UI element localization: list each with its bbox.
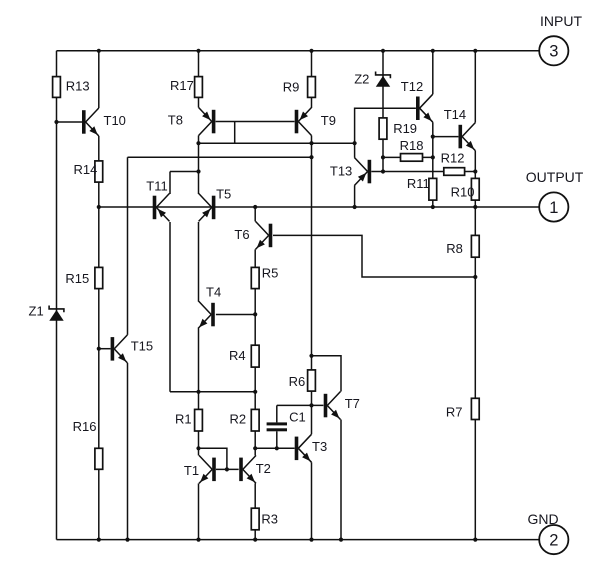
- resistor R10: [471, 178, 479, 200]
- wire T9 collector center column: [311, 136, 313, 435]
- node tail / R4-R2: [253, 390, 257, 394]
- transistor T8: [199, 108, 216, 136]
- node R2 / T2 collector: [253, 446, 257, 450]
- resistor R6: [308, 370, 316, 391]
- wire T13 emitter drop: [354, 186, 356, 208]
- svg-text:R17: R17: [170, 78, 194, 93]
- node T1 T2 base jog: [225, 467, 229, 471]
- wire T8 collector drop: [198, 136, 200, 144]
- wire Z2 R19 branch: [382, 51, 384, 172]
- node output rail / T6 collector: [253, 205, 257, 209]
- resistor R4: [251, 345, 259, 367]
- wire R18 row: [383, 156, 433, 158]
- resistor R3: [251, 508, 259, 530]
- label R17: [170, 78, 194, 93]
- svg-text:R15: R15: [65, 271, 89, 286]
- node T15 base / R15-R16: [97, 347, 101, 351]
- node C1 / T3 base: [275, 446, 279, 450]
- node T10 base / R13: [54, 120, 58, 124]
- svg-text:R2: R2: [230, 412, 247, 427]
- node divider tap R8-R7: [473, 275, 477, 279]
- node center column / T7 collector wire: [309, 354, 313, 358]
- wire T8 T9 base rail: [216, 121, 295, 123]
- wire T5 emitter to T4 collector: [198, 222, 200, 301]
- label Z1: [29, 304, 44, 319]
- wire T6 base to divider tap: [273, 235, 475, 277]
- wire T14 collector: [474, 51, 476, 123]
- transistor T9: [295, 108, 312, 136]
- svg-text:R4: R4: [229, 348, 246, 363]
- wire node A to node B: [198, 143, 200, 171]
- svg-text:R19: R19: [393, 121, 417, 136]
- node R19 / R18 left: [381, 155, 385, 159]
- node T4 base / R5-R4: [253, 312, 257, 316]
- wire T10 collector to input rail: [98, 51, 100, 108]
- label R19: [393, 121, 417, 136]
- node T14 base: [431, 135, 435, 139]
- svg-text:R9: R9: [283, 80, 300, 95]
- node ground / T3 emitter: [309, 538, 313, 542]
- wire T1 T2 base link: [216, 468, 239, 470]
- svg-text:OUTPUT: OUTPUT: [526, 169, 584, 185]
- resistor R7: [471, 398, 479, 419]
- wire T3 emitter to ground: [311, 462, 313, 539]
- resistor R11: [429, 178, 437, 200]
- wire left rail with Z1: [56, 51, 58, 540]
- label R7: [446, 405, 463, 420]
- wire T15 collector riser: [127, 157, 129, 335]
- label T11: [146, 179, 167, 194]
- wire node T15-collector horizontal: [128, 156, 312, 158]
- svg-text:Z2: Z2: [354, 72, 369, 87]
- svg-text:R1: R1: [175, 412, 192, 427]
- svg-text:T10: T10: [104, 113, 126, 128]
- node ground / T1 emitter: [196, 538, 200, 542]
- node ground / T15 emitter: [125, 538, 129, 542]
- svg-text:C1: C1: [289, 410, 306, 425]
- node input rail / T14 collector: [473, 49, 477, 53]
- svg-text:R18: R18: [400, 138, 424, 153]
- label T13: [330, 164, 352, 179]
- resistor R19: [379, 118, 387, 139]
- wire R8 R7 divider column: [474, 207, 476, 540]
- svg-text:R7: R7: [446, 405, 463, 420]
- label T7: [345, 396, 360, 411]
- resistor R18: [401, 154, 423, 162]
- node R6 / T7 base / T3 collector: [309, 403, 313, 407]
- transistor T7: [324, 392, 341, 420]
- resistor R2: [251, 409, 259, 431]
- node center column / 157-wire: [309, 155, 313, 159]
- node input rail / T12 collector: [431, 49, 435, 53]
- label Z2: [354, 72, 369, 87]
- wire T7 collector link: [312, 356, 342, 392]
- transistor T11: [153, 193, 170, 221]
- node T13 collector / T12 base: [353, 141, 357, 145]
- label T4: [206, 285, 221, 300]
- label R6: [289, 374, 306, 389]
- wire T4 base: [216, 314, 255, 316]
- label T12: [401, 79, 423, 94]
- label R5: [262, 266, 279, 281]
- label T14: [444, 107, 466, 122]
- wire T13 collector riser: [354, 143, 356, 157]
- node A T8 collector: [196, 141, 200, 145]
- zener Z2: [376, 72, 391, 87]
- transistor T5: [199, 193, 216, 221]
- transistor T10: [82, 108, 99, 136]
- wire T14 emitter R10: [474, 151, 476, 207]
- node ground / T7 emitter: [339, 538, 343, 542]
- svg-text:R16: R16: [73, 419, 97, 434]
- svg-text:T15: T15: [131, 339, 153, 354]
- wire T8 base-collector tie: [234, 122, 236, 144]
- wire T14 base: [433, 136, 459, 138]
- svg-text:R12: R12: [441, 151, 465, 166]
- svg-text:1: 1: [549, 199, 558, 217]
- label T8: [168, 112, 183, 127]
- wire T2 emitter R3 to ground: [254, 483, 256, 539]
- wire T1 collector stub: [198, 448, 200, 455]
- node ground / R3: [253, 538, 257, 542]
- wire input top rail: [57, 50, 540, 52]
- wire T7 base C1 link: [277, 404, 324, 406]
- node ground / R16: [97, 538, 101, 542]
- label T1: [184, 463, 199, 478]
- label T2: [256, 461, 271, 476]
- resistor R14: [95, 161, 103, 182]
- node input rail / R9: [309, 49, 313, 53]
- wire R9 from input rail: [311, 51, 313, 108]
- node input rail / R17: [196, 49, 200, 53]
- node input rail / R13-T10: [97, 49, 101, 53]
- svg-text:T12: T12: [401, 79, 423, 94]
- label R1: [175, 412, 192, 427]
- node R1 / T1 collector: [196, 446, 200, 450]
- transistor T2: [239, 455, 256, 483]
- zener Z1: [49, 306, 64, 321]
- label R4: [229, 348, 246, 363]
- label R8: [446, 241, 463, 256]
- svg-text:T8: T8: [168, 112, 183, 127]
- label T9: [321, 113, 336, 128]
- svg-text:R10: R10: [451, 185, 475, 200]
- node output rail / T13 emitter: [353, 205, 357, 209]
- node tail / T4 emitter R1: [196, 390, 200, 394]
- svg-text:T2: T2: [256, 461, 271, 476]
- terminal 2 GND: [528, 511, 569, 554]
- resistor R12: [444, 168, 465, 176]
- svg-text:T3: T3: [312, 439, 327, 454]
- wire T1 emitter to ground: [198, 483, 200, 539]
- label T5: [216, 187, 231, 202]
- label R15: [65, 271, 89, 286]
- node output rail / R10-R8: [473, 205, 477, 209]
- wire T6 emitter R5 R4 R2 chain: [254, 249, 256, 455]
- resistor R8: [471, 235, 479, 257]
- svg-text:T7: T7: [345, 396, 360, 411]
- label R12: [441, 151, 465, 166]
- resistor R9: [308, 77, 316, 98]
- svg-text:R3: R3: [261, 512, 278, 527]
- wire C1 top lead: [276, 405, 278, 422]
- transistor T15: [111, 335, 128, 363]
- svg-text:T6: T6: [234, 227, 249, 242]
- wire T1 base jog: [199, 448, 227, 469]
- transistor T13: [354, 158, 371, 186]
- transistor T14: [459, 123, 476, 151]
- resistor R1: [195, 409, 203, 431]
- node T11 T5 collectors: [196, 169, 200, 173]
- wire T7 emitter to ground: [340, 420, 342, 540]
- resistor R16: [95, 448, 103, 469]
- wire T10 base: [57, 121, 83, 123]
- node output rail / R11: [431, 205, 435, 209]
- wire T15 emitter to ground: [127, 363, 129, 540]
- transistor T4: [198, 301, 215, 329]
- node ground / R7: [473, 538, 477, 542]
- wire T6 collector stub: [254, 207, 256, 221]
- label R13: [66, 79, 90, 94]
- label R18: [400, 138, 424, 153]
- wire T11 collector link: [170, 172, 199, 195]
- wire T12 emitter R11 chain: [432, 122, 434, 207]
- wire T12 collector: [432, 51, 434, 94]
- node T12 emitter / R18 right: [431, 155, 435, 159]
- terminal 3 INPUT: [539, 13, 582, 66]
- resistor R17: [195, 77, 203, 98]
- svg-text:R13: R13: [66, 79, 90, 94]
- wire T2-collector T3-base link: [255, 447, 294, 449]
- terminal 1 OUTPUT: [526, 169, 584, 222]
- svg-text:INPUT: INPUT: [540, 13, 582, 29]
- capacitor C1: [267, 422, 287, 431]
- node T9 collector: [309, 141, 313, 145]
- svg-text:3: 3: [549, 43, 558, 61]
- wire T10 emitter through R14 R15 R16 to ground: [98, 136, 100, 540]
- wire T15 base: [99, 348, 111, 350]
- svg-text:T11: T11: [146, 179, 167, 194]
- wire ground bottom rail: [57, 539, 540, 541]
- resistor R15: [95, 267, 103, 288]
- svg-text:R14: R14: [74, 162, 98, 177]
- transistor T6: [256, 221, 273, 249]
- svg-text:GND: GND: [528, 511, 559, 527]
- wire R1 branch: [198, 392, 200, 449]
- svg-text:2: 2: [549, 531, 558, 549]
- label R14: [74, 162, 98, 177]
- wire T11 emitter drop: [169, 222, 171, 392]
- label T6: [234, 227, 249, 242]
- svg-text:R11: R11: [407, 176, 430, 191]
- svg-text:R8: R8: [446, 241, 463, 256]
- label T15: [131, 339, 153, 354]
- label R3: [261, 512, 278, 527]
- resistor R13: [53, 77, 61, 98]
- wire node A horizontal (T8 collector rail): [199, 142, 355, 144]
- wire output rail: [99, 206, 539, 208]
- node R12 right / T14 emitter / R10: [473, 169, 477, 173]
- svg-text:T5: T5: [216, 187, 231, 202]
- svg-text:Z1: Z1: [29, 304, 44, 319]
- svg-text:T1: T1: [184, 463, 199, 478]
- svg-text:T13: T13: [330, 164, 352, 179]
- transistor T1: [199, 455, 216, 483]
- svg-text:T14: T14: [444, 107, 466, 122]
- node T13 base / R19: [381, 169, 385, 173]
- wire T13 base R12 row: [371, 171, 475, 173]
- node output rail / R14-R15: [97, 205, 101, 209]
- svg-text:R5: R5: [262, 266, 279, 281]
- label R9: [283, 80, 300, 95]
- label R11: [407, 176, 430, 191]
- label R16: [73, 419, 97, 434]
- svg-text:R6: R6: [289, 374, 306, 389]
- wire T5 collector: [198, 172, 200, 195]
- label C1: [289, 410, 306, 425]
- wire T4 emitter drop: [198, 329, 200, 392]
- label T3: [312, 439, 327, 454]
- resistor R5: [251, 267, 259, 288]
- wire R17 from input rail: [198, 51, 200, 108]
- transistor T12: [416, 94, 433, 122]
- label T10: [104, 113, 126, 128]
- label R2: [230, 412, 247, 427]
- label R10: [451, 185, 475, 200]
- wire tail node horizontal: [170, 391, 255, 393]
- wire C1 bottom lead: [276, 431, 278, 448]
- transistor T3: [295, 434, 312, 462]
- wire T12 base link: [355, 108, 416, 143]
- svg-text:T4: T4: [206, 285, 221, 300]
- svg-text:T9: T9: [321, 113, 336, 128]
- node input rail / Z2: [381, 49, 385, 53]
